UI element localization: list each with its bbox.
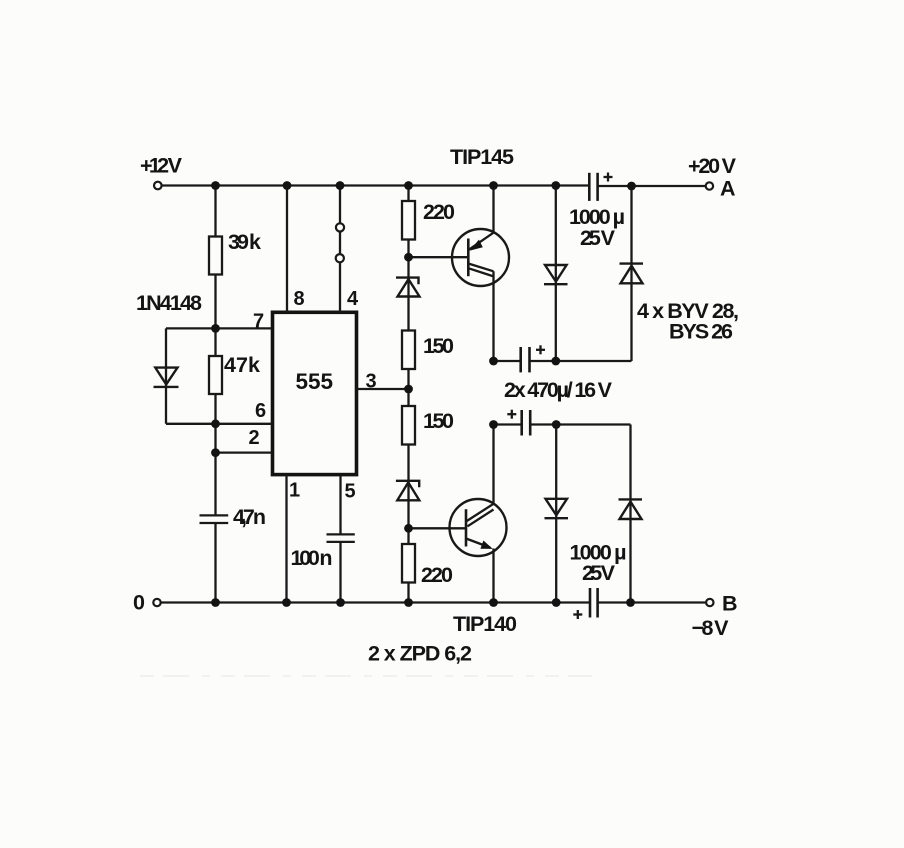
diode D1 1N4148 symbol (154, 368, 179, 387)
label +20 V (688, 154, 737, 178)
terminal A (706, 182, 713, 189)
wire diode D1 branch vertical (165, 328, 167, 423)
svg-text:5: 5 (345, 481, 356, 503)
link circle upper on pin 4 wire (336, 223, 344, 231)
IC U1 555 timer body (273, 312, 357, 474)
svg-text:150: 150 (423, 409, 454, 433)
svg-text:3: 3 (366, 371, 377, 393)
transistor Q2 emitter diagonal with arrow (466, 539, 493, 549)
junction pin2 node (211, 448, 220, 457)
wire lower 470µ line left segment (494, 423, 522, 425)
svg-text:7: 7 (253, 311, 264, 333)
value label 25 V (top) (580, 226, 616, 250)
wire R5 bottom through zener Z2 to resistor R6 (407, 445, 409, 545)
transistor Q1 emitter diagonal with arrow to base (468, 232, 494, 250)
svg-text:2x 470µ/ 16 V: 2x 470µ/ 16 V (504, 378, 613, 402)
junction top rail at pin 4 (336, 181, 345, 190)
terminal B (706, 599, 713, 606)
transistor Q2 collector double diagonal (466, 504, 494, 527)
polarity + of C6 (573, 610, 582, 619)
svg-text:A: A (720, 177, 736, 201)
transistor Q2 base bar (465, 509, 468, 546)
resistor R6 220 body (bottom) (402, 544, 415, 583)
svg-text:555: 555 (296, 369, 334, 394)
junction bottom rail at D4 (552, 598, 561, 607)
wire R4 bottom to pin3 node (407, 369, 409, 406)
wire pin 6 (216, 423, 273, 425)
junction Q2 base node (404, 524, 413, 533)
svg-text:220: 220 (421, 563, 453, 587)
svg-text:+12 V: +12 V (140, 154, 183, 178)
value label 25 V (bottom) (582, 561, 616, 585)
node label B (722, 592, 738, 616)
label 2 x ZPD 6,2 (368, 642, 472, 666)
wire Q1 emitter to +12V rail (492, 186, 494, 233)
pin number 2 (249, 427, 260, 449)
junction pin3 node (404, 385, 413, 394)
junction top rail at 39k column (211, 181, 220, 190)
svg-text:39 k: 39 k (228, 230, 261, 254)
value label 4,7n (233, 505, 266, 529)
wire R6 bottom to 0V rail (407, 583, 409, 603)
junction bottom rail at pin 5 (336, 598, 345, 607)
wire pin7 node to diode D1 branch (top) (166, 327, 216, 329)
svg-text:1: 1 (289, 480, 300, 502)
svg-text:25 V: 25 V (580, 226, 616, 250)
value label 150 (lower) (423, 409, 454, 433)
value label 39 k (228, 230, 261, 254)
value label 150 (upper) (423, 334, 454, 358)
capacitor C4 470µ plates (lower) (522, 410, 531, 436)
svg-text:1N4148: 1N4148 (136, 291, 202, 315)
svg-text:6: 6 (255, 400, 266, 422)
wire diode D5 branch down to 0V rail (629, 425, 631, 603)
wire pin 8 from +12V rail (286, 186, 288, 313)
svg-text:+20 V: +20 V (688, 154, 737, 178)
resistor R3 220 body (top) (402, 201, 415, 240)
wire pin 2 (216, 451, 273, 453)
label -8 V (692, 616, 730, 640)
junction pin6 node (211, 419, 220, 428)
junction top rail at Q1 emitter (489, 181, 498, 190)
wire base of Q2 from middle column node (409, 527, 467, 529)
svg-text:47k: 47k (224, 353, 260, 377)
svg-text:BYS 26: BYS 26 (669, 320, 733, 344)
wire pin 7 (216, 327, 273, 329)
svg-text:220: 220 (423, 200, 455, 224)
capacitor C5 1000µ plates (top, in +12V rail) (589, 173, 597, 201)
resistor R1 39k body (209, 237, 222, 275)
part label 1N4148 (136, 291, 202, 315)
transistor Q1 collector double diagonal (468, 264, 493, 277)
terminal +12V (154, 182, 162, 190)
transistor Q2 TIP140 circle (450, 499, 507, 556)
capacitor C6 1000µ plates (bottom, in 0V rail) (590, 588, 598, 618)
IC U1 label 555 (296, 369, 334, 394)
label BYS 26 (669, 320, 733, 344)
junction top rail at pin 8 (283, 181, 292, 190)
wire R2 bottom through pin6 and pin2 nodes to capacitor C1 (214, 394, 216, 515)
junction pin7 node (211, 324, 220, 333)
wire upper 470µ line left segment (494, 360, 521, 362)
wire C1 bottom to 0V rail (214, 523, 216, 603)
pin number 4 (347, 288, 359, 310)
junction upper 470µ right node at D2 (551, 357, 560, 366)
wire middle column rail to resistor R3 (407, 186, 409, 202)
value label 100 n (291, 546, 333, 570)
value label 47k (224, 353, 260, 377)
zener diode Z2 ZPD 6,2 symbol (396, 481, 419, 501)
wire C2 bottom to 0V rail (339, 542, 341, 603)
svg-text:8: 8 (294, 288, 305, 310)
link circle lower on pin 4 wire (336, 254, 344, 262)
svg-text:100 n: 100 n (291, 546, 333, 570)
junction top rail at D2 (551, 181, 560, 190)
diode D3 BYV28 symbol (cathode up) (620, 264, 644, 284)
wire left column from +12V rail to resistor R1 (214, 186, 216, 237)
wire diode D1 branch bottom to pin6 node (166, 423, 216, 425)
junction Q1 base node (404, 253, 413, 262)
svg-text:4,7 n: 4,7 n (233, 505, 266, 529)
value label 220 (top) (423, 200, 455, 224)
value label 1000 µ (top) (569, 205, 625, 229)
wire R1 bottom to pin7 node (214, 275, 216, 357)
label 4 x BYV 28, (637, 299, 739, 323)
terminal 0 (153, 599, 160, 606)
pin number 8 (294, 288, 305, 310)
label 0 (133, 591, 145, 615)
node label A (720, 177, 736, 201)
svg-text:0: 0 (133, 591, 145, 615)
wire diode D4 branch from lower 470µ node to 0V rail (555, 425, 557, 603)
polarity + of C5 (604, 173, 613, 182)
svg-text:150: 150 (423, 334, 454, 358)
junction top rail at node A / D3 (627, 182, 636, 191)
diode D2 BYV28 symbol (cathode down) (544, 265, 568, 284)
junction bottom rail at D5 (626, 598, 635, 607)
svg-text:TIP145: TIP145 (450, 145, 514, 169)
resistor R4 150 body (upper) (402, 331, 415, 370)
junction bottom rail at Q2 emitter (489, 598, 498, 607)
capacitor C2 100n plates (327, 534, 355, 542)
wire upper 470µ line right segment (530, 360, 632, 362)
capacitor C3 470µ plates (upper) (521, 347, 530, 372)
svg-text:2: 2 (249, 427, 260, 449)
junction bottom rail at left column (211, 598, 220, 607)
junction bottom rail at pin 1 (282, 598, 291, 607)
svg-text:4: 4 (347, 288, 359, 310)
wire base of Q1 from middle column node (409, 256, 469, 258)
resistor R5 150 body (lower) (402, 406, 415, 445)
polarity + of C4 (507, 410, 516, 419)
junction bottom rail at R6 (404, 598, 413, 607)
wire top +12V rail right of capacitor to terminal A (598, 185, 706, 187)
label 2x 470µ / 16 V (504, 378, 613, 402)
pin number 7 (253, 311, 264, 333)
wire pin 3 to middle column node (357, 388, 409, 390)
diode D5 BYV28 symbol (cathode up) (619, 499, 643, 519)
wire pin 1 to 0V rail (285, 475, 287, 603)
part label TIP140 (453, 612, 517, 636)
value label 220 (bottom) (421, 563, 453, 587)
svg-text:25 V: 25 V (582, 561, 616, 585)
wire pin 4 from +12V rail with link (339, 186, 341, 313)
wire Q1 collector down to 470µ node (492, 271, 494, 361)
wire bottom rail right of capacitor to terminal B (598, 601, 707, 603)
junction upper 470µ left node (489, 357, 498, 366)
svg-text:2 x ZPD 6,2: 2 x ZPD 6,2 (368, 642, 472, 666)
zener diode Z1 ZPD 6,2 symbol (396, 278, 420, 297)
wire Q2 collector up to lower 470µ node (492, 425, 494, 505)
pin number 5 (345, 481, 356, 503)
svg-text:TIP140: TIP140 (453, 612, 517, 636)
junction top rail at R3 (404, 181, 413, 190)
value label 1000 µ (bottom) (570, 541, 627, 565)
pin number 3 (366, 371, 377, 393)
resistor R2 47k body (209, 356, 222, 394)
transistor Q1 base bar (467, 239, 470, 277)
junction lower 470µ left node (489, 420, 498, 429)
part label TIP145 (450, 145, 514, 169)
capacitor C1 4,7n plates (200, 515, 229, 523)
wire diode D2 branch from +12V rail down to 470µ line (555, 186, 557, 362)
wire top +12V rail left of capacitor (162, 184, 590, 186)
wire lower 470µ line right segment (530, 423, 630, 425)
wire pin 5 to capacitor C2 (339, 475, 341, 535)
svg-text:B: B (722, 592, 738, 616)
wire Q2 emitter to 0V rail (492, 549, 494, 603)
wire diode D3 branch from node A down to 470µ line (630, 186, 632, 361)
pin number 1 (289, 480, 300, 502)
pin number 6 (255, 400, 266, 422)
wire bottom 0V rail left of capacitor (161, 601, 591, 603)
polarity + of C3 (536, 345, 545, 354)
label +12 V (140, 154, 183, 178)
diode D4 BYV28 symbol (cathode down) (545, 499, 569, 518)
transistor Q1 TIP145 circle (452, 229, 509, 286)
svg-text:−8 V: −8 V (692, 616, 730, 640)
wire R3 bottom through zener Z1 to resistor R4 (407, 240, 409, 331)
junction lower 470µ right node at D4 (552, 420, 561, 429)
